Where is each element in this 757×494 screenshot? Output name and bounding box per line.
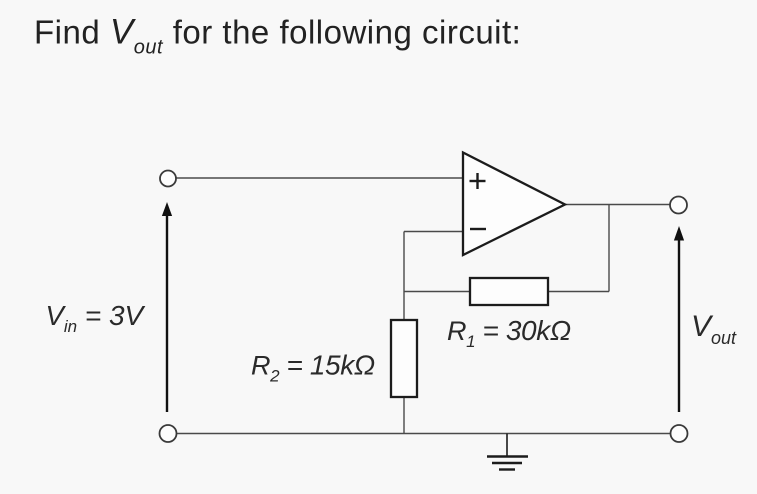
wire: vertical feedback riser up to output wire — [608, 205, 610, 292]
wire: R1 right to vertical feedback riser — [548, 291, 609, 293]
svg-text:R2 = 15kΩ: R2 = 15kΩ — [251, 350, 375, 386]
wire: output wire from op-amp apex to output terminal — [564, 204, 670, 206]
resistor R1 (30k feedback) body — [470, 278, 548, 305]
input terminal circle — [160, 171, 176, 187]
svg-text:R1 = 30kΩ: R1 = 30kΩ — [447, 315, 571, 351]
Vin arrow — [163, 204, 172, 413]
bottom-left terminal circle — [160, 425, 177, 442]
wire: R2 bottom to ground rail — [403, 397, 405, 434]
svg-text:Find Vout for the following ci: Find Vout for the following circuit: — [34, 13, 521, 59]
wire: inverting input wire from op-amp left to feedback node — [404, 231, 463, 233]
op-amp U1 triangle — [463, 153, 565, 256]
wire: non-inverting input wire from input terminal to op-amp — [176, 177, 463, 179]
wire: bottom ground rail — [177, 433, 670, 435]
op-amp non-inverting + symbol — [470, 173, 486, 189]
bottom-right terminal circle — [671, 425, 688, 442]
op-amp inverting − symbol — [470, 228, 486, 230]
ground symbol — [487, 434, 528, 470]
wire: horizontal wire from feedback node to R1 left — [404, 291, 470, 293]
output terminal circle — [670, 197, 687, 214]
resistor R2 (15k) body — [391, 320, 417, 397]
Vout arrow — [675, 228, 684, 413]
svg-text:Vout: Vout — [691, 310, 737, 348]
svg-text:Vin = 3V: Vin = 3V — [46, 300, 146, 336]
wire: vertical wire from inverting input down to R2 top — [403, 232, 405, 321]
title: Find Vout for the following circuit: — [34, 13, 521, 59]
